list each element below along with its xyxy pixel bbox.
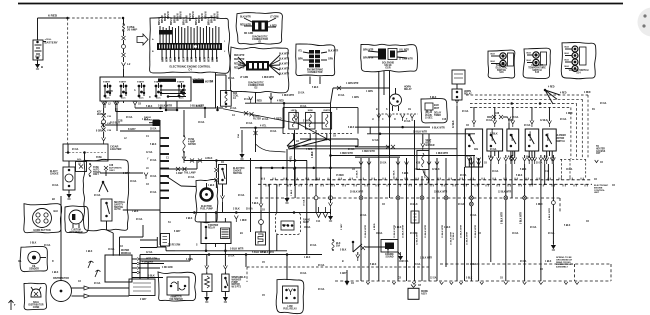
switch box row 2 [487,129,503,151]
fuse pair bottom [332,240,334,250]
svg-text:5 BLK WTR: 5 BLK WTR [230,247,244,250]
meter label bar [193,80,204,84]
svg-text:6 BLK: 6 BLK [348,127,355,129]
svg-text:LEFT: LEFT [291,110,297,112]
top border line [18,3,623,5]
svg-text:LT GRN WTR: LT GRN WTR [399,59,413,61]
svg-text:EGR: EGR [385,67,390,69]
svg-text:ONLY: ONLY [93,174,99,176]
switch row 1 pins [468,158,470,167]
svg-text:18 GA: 18 GA [150,128,157,131]
svg-text:WTR GRN: WTR GRN [146,259,157,261]
wire y147 conns [355,146,390,148]
wire into low fuel [286,255,288,281]
svg-text:BRN W: BRN W [168,10,170,19]
svg-text:C2B: C2B [118,121,123,123]
switch box row 3 [507,129,519,151]
svg-text:2 BLK: 2 BLK [233,209,240,211]
ground washer [224,292,226,297]
svg-text:18 GA: 18 GA [150,175,157,178]
svg-text:4 RED WTR: 4 RED WTR [262,76,275,79]
switch vacuum switch body [565,46,579,72]
wire y146 right [287,145,358,147]
battery B1 [33,40,43,60]
distributor body [51,281,72,302]
svg-text:20 GA: 20 GA [230,107,237,110]
connector blob C outline [296,44,335,76]
wire battery feed [37,18,39,40]
svg-text:6 BLK WTR: 6 BLK WTR [432,128,445,130]
svg-text:18 GA: 18 GA [108,248,115,251]
dashed vertical x574 [574,264,576,281]
diagonal wire to flasher area [223,109,331,141]
relay blob low-fuel outline [276,279,304,313]
svg-text:YEL: YEL [298,51,303,53]
switch thermal switch body [491,53,507,67]
svg-text:SENDER: SENDER [29,268,39,270]
svg-text:20 GA: 20 GA [126,116,133,119]
bus wire 4RED [245,102,331,104]
connector D2 body [238,55,280,75]
connector Y into switch [122,63,126,70]
switch row 4 feed [530,121,534,128]
svg-text:S14: S14 [576,71,581,74]
svg-text:15 BLK WTR: 15 BLK WTR [451,231,453,245]
svg-text:BLK: BLK [565,60,570,62]
wire y127.8 [240,127,284,129]
svg-text:1 BLK: 1 BLK [444,227,451,229]
wire blob to bus [123,209,160,211]
wire vertical R4 [524,164,526,281]
dashed bus y184.3 [258,183,592,185]
svg-text:WTR: WTR [167,56,169,62]
svg-text:4 RED: 4 RED [306,148,313,151]
svg-text:18 GA: 18 GA [492,170,499,173]
wire 30 BLK WTR [367,133,475,135]
dashed feed right 1 [466,94,588,96]
svg-text:30 BLK WTR: 30 BLK WTR [350,192,364,194]
bus ground arrow [345,281,350,286]
svg-text:W/ 2 PTS: W/ 2 PTS [232,287,242,289]
svg-text:4 RED WTR: 4 RED WTR [282,94,295,97]
wire below fuse [123,31,125,36]
svg-text:BLK: BLK [527,60,532,62]
antenna arrow 1 [88,261,94,268]
pump blob outline [195,180,218,223]
svg-text:WTR: WTR [200,56,202,62]
svg-text:20 GA: 20 GA [338,94,345,97]
solenoid connector box [76,162,87,172]
washer switch box [222,274,229,292]
connector row right [489,158,493,165]
svg-text:IGN: IGN [470,137,472,141]
resistor wire box [129,279,155,296]
svg-text:BRN W: BRN W [190,12,192,21]
wire to right 5 BLK WTR [205,107,223,109]
vertical x284 [283,103,285,128]
svg-text:15 BLK WTR: 15 BLK WTR [461,224,463,238]
ground engine sound [398,252,401,255]
staircase joins [156,237,158,247]
svg-text:AUTO: AUTO [114,208,121,211]
svg-text:WTR: WTR [179,56,181,62]
svg-text:WAGONEER: WAGONEER [69,231,83,234]
svg-text:4 DK GRN: 4 DK GRN [162,266,173,269]
svg-text:4 RED: 4 RED [255,99,262,102]
wire vertical V13 [470,158,472,281]
svg-text:FUSE: FUSE [96,157,102,159]
svg-text:ACC: ACC [156,97,161,100]
vertical x316 [315,130,317,180]
arrow C6 right [595,160,599,163]
svg-text:18 GA: 18 GA [52,184,59,187]
svg-text:BLK: BLK [527,53,532,55]
wire vertical V5 [397,158,399,281]
wire vertical V3 [378,71,380,281]
module blob ECU outline [150,17,230,73]
svg-text:2 GRY: 2 GRY [123,173,130,175]
down arrow G2 [323,207,327,218]
svg-text:20 GA: 20 GA [150,191,157,194]
svg-text:ACC: ACC [121,97,126,100]
svg-text:20 GA: 20 GA [520,260,527,263]
svg-text:FUEL RELAY: FUEL RELAY [283,307,297,310]
neutral safety switch box [101,199,112,221]
wire vertical V4 [389,71,391,198]
svg-text:20 GA: 20 GA [196,105,203,108]
dashed branch lower [247,266,430,268]
svg-text:TIMER: TIMER [434,115,441,117]
svg-text:1 RED: 1 RED [240,220,247,222]
svg-text:18 BLK: 18 BLK [410,204,418,206]
svg-text:RED WTR: RED WTR [234,59,245,61]
bus wire y254.5 [140,254,322,256]
wire emer brake [294,168,296,198]
wire across blob [100,172,143,174]
svg-text:BUZZER: BUZZER [97,114,106,116]
svg-text:START: START [154,81,162,84]
svg-text:20 GA: 20 GA [246,208,253,211]
svg-text:5 BLK: 5 BLK [146,106,153,108]
svg-text:20 GA: 20 GA [94,194,101,197]
svg-text:ACC: ACC [105,97,110,100]
svg-text:18 GA: 18 GA [566,168,573,171]
svg-text:B: B [41,65,43,69]
svg-text:20A: 20A [237,134,240,138]
ignition switch label bar [158,79,176,82]
splice ring [122,45,126,49]
connector Y ballast [205,266,209,273]
fuse auto trans symbol [89,164,91,176]
svg-text:20 GA: 20 GA [282,224,289,227]
svg-text:2 GRY: 2 GRY [341,223,343,230]
svg-text:START: START [103,81,111,84]
svg-text:GRD: GRD [108,91,113,93]
svg-text:20 GA: 20 GA [262,118,269,121]
svg-text:20 GA: 20 GA [410,232,417,235]
svg-text:BRN W: BRN W [205,10,207,19]
svg-text:5 BLK: 5 BLK [252,203,259,205]
svg-text:20 GA: 20 GA [560,118,567,121]
wire y148.8 right [288,148,457,150]
svg-text:BRN W: BRN W [218,10,220,19]
curve to bundle [256,144,286,152]
connector Y washer [223,266,227,273]
svg-text:18 GA: 18 GA [376,232,383,235]
svg-text:4 RED: 4 RED [277,99,284,102]
svg-text:4 BLK WTR: 4 BLK WTR [548,208,551,220]
svg-text:WTR: WTR [204,56,206,62]
buzzer drop curve [423,170,429,184]
svg-text:BLK WTR: BLK WTR [279,59,290,61]
svg-text:LBL WTR: LBL WTR [399,50,409,52]
svg-text:20 GA: 20 GA [298,92,305,95]
svg-text:5 BLK WTR: 5 BLK WTR [521,212,523,224]
switch row 5 feed [547,121,551,128]
svg-text:BRN W: BRN W [177,12,179,21]
svg-text:4 AMP: 4 AMP [176,172,183,175]
ignition switch contacts [103,81,186,100]
svg-text:1 BLK: 1 BLK [395,227,402,229]
svg-text:SWITCH: SWITCH [193,80,203,84]
svg-text:BRN W: BRN W [171,16,173,25]
switch row 2 pins [490,151,492,158]
wire seg [123,40,125,44]
bundle vertical [286,149,288,196]
vertical x242 ground [241,130,243,152]
wire vertical V6 [406,158,408,281]
switch blob thermal switch outline [488,50,515,78]
wire vertical V9 [428,134,430,281]
svg-text:4 YEL: 4 YEL [260,124,267,127]
horn circle [390,94,402,106]
flasher unit 2 [306,112,316,129]
svg-text:18 GA: 18 GA [486,119,493,122]
svg-text:DEFOG: DEFOG [548,133,550,141]
wire second drop [142,225,144,237]
svg-text:1 BLK WTR: 1 BLK WTR [420,258,432,260]
svg-text:20 GA: 20 GA [228,77,235,80]
relay pins bottom [205,244,207,251]
fuse 4 AMP [183,110,185,136]
svg-text:30 BLK WTR: 30 BLK WTR [413,131,427,133]
wire seg2 [123,49,125,53]
ignition drops right [165,101,167,110]
svg-text:RATED: RATED [188,143,196,146]
svg-text:12 BLK: 12 BLK [453,232,455,240]
svg-text:SIDE: SIDE [308,110,314,112]
svg-text:5 BLK: 5 BLK [148,275,155,277]
wire lamp feed [120,130,160,132]
fan diagonals right top [545,90,557,99]
svg-text:20 GA: 20 GA [460,174,467,177]
svg-text:5 BLK: 5 BLK [402,173,409,175]
svg-text:BATTERY: BATTERY [45,41,58,45]
svg-text:20A: 20A [336,244,340,247]
svg-text:15 BLK WTR: 15 BLK WTR [475,224,477,238]
wire y155.5 [331,155,476,157]
svg-text:18 GA: 18 GA [302,199,305,206]
svg-text:20 GA: 20 GA [536,162,543,165]
verticals into bus area [268,184,270,254]
bus wire y250.8 [175,250,287,252]
svg-text:5 BLK WTR: 5 BLK WTR [262,252,274,254]
wire seg3 [123,57,125,62]
svg-text:TAIL LAMP: TAIL LAMP [184,172,196,175]
svg-text:4 RED: 4 RED [560,92,567,95]
horn socket bracket [378,113,418,115]
svg-text:BRN WTR: BRN WTR [363,50,374,52]
solenoid EGR body [368,49,407,60]
arrow to ECU [137,34,148,45]
ignition coil box [221,91,232,107]
svg-text:BLK: BLK [565,47,570,49]
svg-text:18 GA: 18 GA [130,180,137,183]
svg-text:4 RED: 4 RED [584,91,591,94]
horn relay pin [456,84,458,89]
svg-text:1 GRN WTR: 1 GRN WTR [346,83,359,85]
switch row 4 pins [528,151,530,158]
svg-text:WTR: WTR [217,56,219,62]
coolant switch side box [541,52,547,65]
svg-text:BLK: BLK [565,53,570,55]
wire vertical R9 [547,164,549,180]
svg-text:5 BLK WTR: 5 BLK WTR [502,212,504,224]
svg-text:2 WHT: 2 WHT [303,121,311,123]
wire distributor feed [60,196,62,281]
svg-text:CKT: CKT [596,153,601,155]
svg-text:BRN W: BRN W [202,12,204,21]
connector column to cigar [102,102,106,109]
svg-text:IGN: IGN [474,149,478,151]
connector blob D1 outline [236,13,282,45]
svg-text:15 BLK: 15 BLK [357,170,359,178]
switch lever bottom [352,242,354,252]
svg-text:20 GA: 20 GA [462,110,469,113]
svg-text:1 BLK: 1 BLK [208,185,215,187]
defog resistor box [256,232,266,245]
fuse F1 20A [122,24,124,31]
dashed feed right 4 [470,107,571,109]
svg-text:O: O [394,119,396,121]
bulkhead bus vertical [159,120,161,245]
svg-text:SOUND: SOUND [386,256,394,258]
low fuel body [283,286,299,303]
svg-text:BLK WTR: BLK WTR [328,51,339,53]
svg-text:+CELL: +CELL [45,39,53,41]
svg-text:FUEL PUMP: FUEL PUMP [200,208,213,210]
svg-text:RELAY: RELAY [404,88,412,91]
svg-text:LT GRN: LT GRN [270,17,279,19]
flasher pins [293,134,295,140]
svg-text:8 GRY: 8 GRY [96,131,103,133]
svg-text:15 BLK WTR: 15 BLK WTR [403,224,405,238]
dashed feed right 2 [475,98,582,100]
svg-text:12 BLK: 12 BLK [394,170,396,178]
svg-text:6 RED: 6 RED [48,14,58,18]
engine sound box [381,240,398,253]
switch row 3 pins [510,151,512,158]
svg-text:4 RED WTR: 4 RED WTR [340,152,353,155]
svg-text:BUZZER: BUZZER [426,145,435,147]
svg-text:12 BLK: 12 BLK [540,120,548,122]
svg-text:12 BLK WTR: 12 BLK WTR [498,192,512,194]
svg-text:LT GRN: LT GRN [240,77,248,79]
switch blob vacuum switch outline [561,42,596,78]
ground right column [552,225,554,244]
svg-text:RED WTR: RED WTR [234,63,245,65]
wire x370 join [369,127,371,134]
svg-text:BLK: BLK [54,211,59,213]
wire lower left [140,260,190,262]
wire vertical R2 [505,164,507,281]
switch row 1 feed [472,121,476,128]
svg-text:18 GRN: 18 GRN [425,170,427,178]
svg-text:20 GA: 20 GA [310,244,317,247]
svg-text:BLK WTR: BLK WTR [279,69,290,71]
gauge blob ammeter outline [158,272,196,301]
svg-text:20 GA: 20 GA [458,203,465,206]
svg-text:L2: L2 [127,62,131,66]
svg-text:4 RED: 4 RED [536,203,543,206]
coil box feed [225,75,227,91]
svg-text:CHOKE: CHOKE [50,173,59,175]
dashed bus y179.8 [270,179,592,181]
svg-text:MOTOR: MOTOR [556,138,565,140]
svg-text:BLK WTR: BLK WTR [279,64,290,66]
wire P/J BLU [101,123,105,127]
switch row 2 feed [493,121,497,128]
svg-text:20 GA: 20 GA [318,288,325,291]
connector row mid [359,162,363,169]
svg-text:18 GA: 18 GA [414,263,421,266]
electric choke heater box [63,167,75,190]
svg-text:BRN W: BRN W [174,14,176,23]
wire vertical V1 [360,158,362,281]
svg-text:10 SEC: 10 SEC [425,117,433,119]
wire D2 drop [255,92,257,103]
dashed main feed down [67,18,69,144]
svg-text:BLK WTR: BLK WTR [279,54,290,56]
svg-text:20 GA: 20 GA [524,124,531,127]
svg-text:5 BLK: 5 BLK [312,87,319,89]
svg-text:12 BLK: 12 BLK [432,169,440,171]
switch box row 4 [525,129,539,151]
switch row 5 pins [546,151,548,158]
svg-text:SUPP: SUPP [303,222,310,224]
flasher unit 1 [289,112,299,129]
wire vertical R8 [552,164,554,225]
svg-text:12 GA: 12 GA [146,251,153,254]
svg-text:BRN: BRN [298,59,303,61]
blob C stubs [309,77,311,85]
svg-text:CONNECTOR: CONNECTOR [308,72,323,74]
svg-text:BRN W: BRN W [187,14,189,23]
choke switch pin [222,184,224,196]
svg-text:18 GA: 18 GA [300,272,307,275]
svg-text:20 GA: 20 GA [246,122,253,125]
svg-text:BRN W: BRN W [159,16,161,25]
svg-text:WTR: WTR [171,56,173,62]
svg-text:4 RED WTR: 4 RED WTR [436,152,449,155]
svg-text:BRN W: BRN W [162,14,164,23]
bus v arrows [366,282,370,285]
x-circle on V14 [470,202,474,206]
svg-text:1 BLK: 1 BLK [142,119,149,121]
op ECU connector bar [157,26,222,60]
sender blob distributor-cap outline [24,283,47,310]
wire vertical R3 [511,164,513,198]
